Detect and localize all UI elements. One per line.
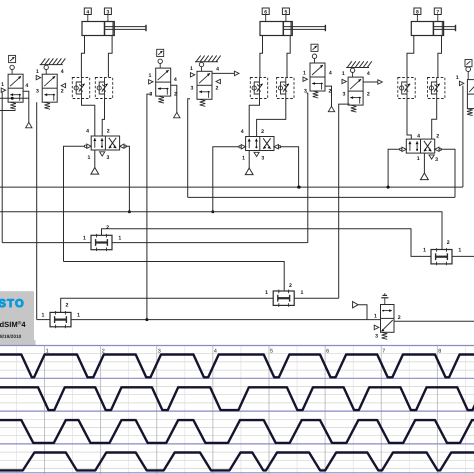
port 2 arrow of 2S2 bbox=[216, 79, 220, 83]
timing diagram panel bbox=[0, 340, 474, 474]
wire 2V5 right port to edge bbox=[452, 255, 474, 257]
left pilot wire of 2V1 to bus line bbox=[213, 147, 240, 212]
one-way flow control valve 1V2 bbox=[72, 78, 89, 99]
port 1 arrow of 1S1 bbox=[1, 88, 5, 92]
svg-text:3: 3 bbox=[158, 348, 161, 354]
svg-text:5: 5 bbox=[270, 348, 273, 354]
position marker 7 bbox=[434, 8, 441, 22]
svg-text:4: 4 bbox=[174, 77, 177, 83]
wire flow control 3V3 to valve port 2 bbox=[432, 99, 437, 140]
wire 2S1 port 3 down to supply line bbox=[147, 94, 152, 320]
chart horizontal gridlines bbox=[0, 353, 474, 355]
exhaust below 1S1 bbox=[26, 122, 32, 127]
port 1 arrow of 1S2 bbox=[36, 75, 40, 79]
svg-text:7: 7 bbox=[382, 348, 385, 354]
port 1 arrow of 3S2 bbox=[342, 79, 346, 83]
svg-text:6: 6 bbox=[264, 9, 267, 15]
svg-text:4: 4 bbox=[61, 69, 64, 75]
svg-text:1: 1 bbox=[149, 73, 152, 79]
port 1 arrow of 3S1 bbox=[303, 77, 307, 81]
one-way flow control valve 2V3 bbox=[277, 78, 294, 99]
supply line of 2V1 bbox=[248, 151, 250, 169]
cylinder 2A1 bbox=[260, 22, 325, 36]
wire supply to start valve port 1 bbox=[358, 305, 367, 320]
svg-text:1: 1 bbox=[417, 156, 420, 162]
roller lever head bbox=[311, 44, 318, 51]
svg-text:8: 8 bbox=[416, 9, 419, 15]
wire into 3V4 right port from 3S2 bbox=[294, 297, 339, 299]
svg-text:2: 2 bbox=[447, 240, 450, 246]
position marker 5 bbox=[282, 8, 289, 22]
wire 3S2 port 4 with arrow bbox=[363, 81, 378, 83]
right pilot wire of 2V1 to bus line bbox=[280, 147, 299, 187]
two-pressure valve 2V5 bbox=[431, 248, 452, 265]
one-way flow control valve 2V2 bbox=[250, 78, 267, 99]
port 1 arrow of 2S2 bbox=[190, 73, 194, 77]
wire flow control 3V2 to valve port 4 bbox=[407, 99, 411, 140]
svg-text:2: 2 bbox=[289, 283, 292, 289]
5/2-way double pilot valve 1V1 bbox=[84, 136, 126, 150]
5/2-way double pilot valve 3V1 bbox=[400, 139, 442, 153]
port 1 arrow of 4S1 bbox=[459, 81, 463, 85]
svg-text:1: 1 bbox=[301, 290, 304, 296]
port 2 arrow of 1S2 bbox=[61, 83, 65, 87]
svg-text:3: 3 bbox=[107, 155, 110, 161]
trace cylinder 1A1 position bbox=[0, 355, 474, 378]
chart band boundary lines bbox=[0, 345, 474, 347]
wire 1S2 port 3 down to shuttle 1V6 bbox=[36, 102, 38, 319]
compressed air supply bbox=[91, 168, 99, 175]
exhaust arrow of start valve bbox=[374, 325, 379, 329]
wire cylinder 1A1 left port to flow control bbox=[81, 36, 84, 78]
compressed air supply bbox=[421, 173, 429, 180]
svg-text:3: 3 bbox=[36, 89, 39, 95]
two-pressure valve 3V4 bbox=[273, 290, 294, 307]
svg-text:STO: STO bbox=[0, 298, 25, 310]
svg-text:3: 3 bbox=[261, 155, 264, 161]
cylinder 1A1 bbox=[82, 22, 146, 36]
trace cylinder 4A1 position bbox=[0, 453, 474, 471]
one-way trip wall bbox=[346, 67, 369, 69]
supply source for start valve bbox=[353, 302, 358, 308]
one-way flow control valve 3V2 bbox=[398, 78, 415, 99]
wire cylinder 2A1 left port to flow control bbox=[260, 36, 263, 78]
svg-text:1: 1 bbox=[88, 155, 91, 161]
cascade bus line A bbox=[0, 186, 463, 188]
svg-text:1: 1 bbox=[342, 71, 345, 77]
svg-text:4: 4 bbox=[86, 129, 89, 135]
shuttle 1V5 output line to 2V5 bbox=[102, 229, 432, 257]
wire flow control 2V2 to valve port 4 bbox=[249, 99, 259, 137]
position marker 4 bbox=[84, 8, 91, 22]
svg-text:7: 7 bbox=[436, 9, 439, 15]
wire 2S2 port 3 down to cascade line bbox=[188, 99, 190, 198]
svg-text:4: 4 bbox=[214, 348, 217, 354]
svg-text:3: 3 bbox=[191, 86, 194, 92]
trace cylinder 3A1 position bbox=[0, 420, 474, 443]
one-way trip wall bbox=[195, 61, 218, 63]
svg-text:2: 2 bbox=[261, 129, 264, 135]
wire 2S1 port 4 to exhaust bbox=[171, 85, 177, 112]
svg-text:1: 1 bbox=[303, 71, 306, 77]
svg-text:5: 5 bbox=[285, 9, 288, 15]
svg-text:1: 1 bbox=[423, 248, 426, 254]
svg-text:2: 2 bbox=[61, 89, 64, 95]
chart corner label box bbox=[0, 340, 36, 346]
one-way trip wall bbox=[40, 64, 63, 66]
wire into 1V6 left port from 1S2 bbox=[37, 319, 50, 321]
svg-text:4: 4 bbox=[25, 83, 28, 89]
left pilot wire of 1V1 from shuttle 1V4 bbox=[64, 146, 86, 261]
wire 1S1 port 1 down to shuttle 1V5 bbox=[1, 92, 3, 242]
svg-text:1: 1 bbox=[190, 66, 193, 72]
3/2-way roller valve 2S2 bbox=[195, 56, 221, 107]
svg-text:3: 3 bbox=[342, 92, 345, 98]
3/2-way push button start valve bbox=[381, 293, 395, 339]
wire into 3V4 left port from 1V6 bbox=[61, 298, 274, 312]
two-pressure valve 1V5 bbox=[91, 234, 112, 251]
svg-text:2: 2 bbox=[215, 86, 218, 92]
svg-text:1: 1 bbox=[118, 235, 121, 241]
svg-text:4: 4 bbox=[86, 9, 89, 15]
svg-text:2: 2 bbox=[106, 225, 109, 231]
svg-text:4: 4 bbox=[367, 71, 370, 77]
svg-text:1: 1 bbox=[42, 312, 45, 318]
chart vertical gridlines bbox=[44, 346, 46, 474]
svg-text:1: 1 bbox=[83, 235, 86, 241]
roller lever head bbox=[9, 55, 16, 62]
wire 4S1 port 1 down to bus line bbox=[462, 86, 464, 188]
one-way flow control valve 1V3 bbox=[95, 78, 112, 99]
wire flow control 1V3 to valve port 2 bbox=[102, 99, 104, 137]
3/2-way roller valve 2S1 bbox=[156, 49, 171, 103]
svg-text:1: 1 bbox=[265, 290, 268, 296]
svg-text:4: 4 bbox=[417, 133, 420, 139]
exhaust bbox=[100, 152, 105, 156]
cascade line to 3V1 right pilot bbox=[188, 196, 455, 198]
svg-text:1: 1 bbox=[1, 82, 4, 88]
svg-text:2: 2 bbox=[436, 133, 439, 139]
svg-text:4: 4 bbox=[216, 67, 219, 73]
trace cylinder 2A1 position bbox=[0, 387, 474, 410]
svg-text:8/19/2010: 8/19/2010 bbox=[0, 334, 22, 340]
cylinder 3A1 bbox=[411, 22, 455, 36]
3/2-way roller valve 3S1 bbox=[310, 44, 325, 98]
3/2 roller valve 4S1 (cut) bbox=[465, 60, 474, 116]
exhaust bbox=[429, 155, 434, 159]
stub wire at left edge bbox=[0, 110, 16, 112]
svg-text:1: 1 bbox=[77, 312, 80, 318]
FESTO logo block bbox=[0, 291, 34, 341]
svg-text:2: 2 bbox=[367, 92, 370, 98]
wire cylinder 3A1 left port to flow control bbox=[407, 36, 414, 78]
svg-text:8: 8 bbox=[438, 348, 441, 354]
svg-text:6: 6 bbox=[326, 348, 329, 354]
two-pressure valve 1V6 bbox=[50, 311, 71, 328]
svg-text:dSIM®4: dSIM®4 bbox=[0, 320, 26, 329]
exhaust below 3S1 bbox=[328, 106, 334, 111]
one-way flow control valve 3V3 bbox=[428, 78, 445, 99]
right pilot wire of 3V1 to cascade line bbox=[440, 149, 455, 197]
svg-text:1: 1 bbox=[242, 155, 245, 161]
wire 1S1 port 4 to exhaust bbox=[22, 91, 28, 122]
position marker 8 bbox=[414, 8, 421, 22]
wire 3S1 port 3 down to shuttle 1V5 bbox=[307, 93, 308, 243]
wire cylinder 3A1 right port to flow control bbox=[438, 36, 442, 78]
svg-text:4: 4 bbox=[329, 71, 332, 77]
wire from left edge through 1S1 port 3 bbox=[0, 97, 29, 99]
wire into 1V5 left port bbox=[2, 242, 91, 244]
wire cylinder 2A1 right port to flow control bbox=[287, 36, 290, 78]
shuttle 3V4 output line to 1V1 pilot bbox=[64, 262, 285, 291]
svg-text:1: 1 bbox=[458, 248, 461, 254]
3/2-way roller valve 3S2 bbox=[346, 61, 372, 112]
position marker 3 bbox=[104, 8, 111, 22]
wire 3S2 port 3 down to shuttle 3V4 bbox=[339, 104, 350, 298]
svg-text:2: 2 bbox=[398, 315, 401, 321]
svg-text:3: 3 bbox=[435, 157, 438, 163]
svg-text:1: 1 bbox=[456, 75, 459, 81]
start valve output wire bbox=[394, 320, 474, 322]
roller lever head bbox=[157, 49, 164, 56]
wire into 1V5 right port from 3S1 bbox=[112, 242, 308, 244]
exhaust below 2S1 bbox=[174, 112, 180, 117]
cascade bus line B bbox=[0, 212, 442, 250]
svg-text:4: 4 bbox=[241, 129, 244, 135]
wire flow control 1V2 to valve port 4 bbox=[82, 99, 95, 137]
compressed air supply bbox=[245, 168, 253, 175]
supply line of 1V1 bbox=[94, 150, 96, 168]
svg-text:2: 2 bbox=[66, 302, 69, 308]
3/2-way roller valve 1S1 bbox=[8, 55, 23, 109]
wire flow control 2V3 to valve port 2 bbox=[257, 99, 286, 137]
right pilot wire of 1V1 to bus line bbox=[125, 146, 129, 212]
svg-text:2: 2 bbox=[107, 129, 110, 135]
svg-text:1: 1 bbox=[36, 69, 39, 75]
5/2-way double pilot valve 2V1 bbox=[239, 137, 281, 151]
svg-text:3: 3 bbox=[107, 9, 110, 15]
wire 3S1 port 4 to exhaust bbox=[325, 86, 332, 106]
wire 2S2 port 4 with arrow bbox=[212, 72, 234, 74]
exhaust bbox=[254, 152, 259, 156]
svg-text:1: 1 bbox=[374, 313, 377, 319]
3/2-way roller valve 1S2 bbox=[40, 58, 66, 109]
main supply line from 1V6 to start valve bbox=[71, 319, 381, 321]
supply line of 3V1 bbox=[423, 153, 425, 173]
svg-text:3: 3 bbox=[375, 333, 378, 339]
wire cylinder 1A1 right port to flow control bbox=[108, 36, 112, 78]
port 1 arrow of 2S1 bbox=[149, 80, 153, 84]
left pilot wire of 3V1 to bus line bbox=[388, 149, 400, 187]
position marker 6 bbox=[262, 8, 269, 22]
